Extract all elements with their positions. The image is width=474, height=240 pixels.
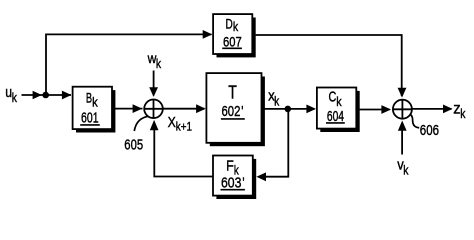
svg-text:k: k xyxy=(156,57,162,71)
svg-text:k: k xyxy=(12,91,18,105)
svg-text:F: F xyxy=(226,159,234,175)
svg-text:606: 606 xyxy=(420,123,439,139)
svg-text:k: k xyxy=(92,95,98,109)
svg-text:k: k xyxy=(460,107,466,121)
svg-text:D: D xyxy=(226,16,233,31)
svg-text:T: T xyxy=(228,83,237,103)
svg-text:605: 605 xyxy=(124,137,143,153)
svg-text:': ' xyxy=(241,104,243,120)
svg-text:k: k xyxy=(274,95,280,109)
svg-text:k: k xyxy=(403,164,409,178)
svg-text:C: C xyxy=(329,90,337,106)
svg-text:k+1: k+1 xyxy=(176,122,192,134)
svg-text:602: 602 xyxy=(222,104,241,120)
svg-text:k: k xyxy=(233,20,239,34)
svg-text:k: k xyxy=(336,95,342,109)
